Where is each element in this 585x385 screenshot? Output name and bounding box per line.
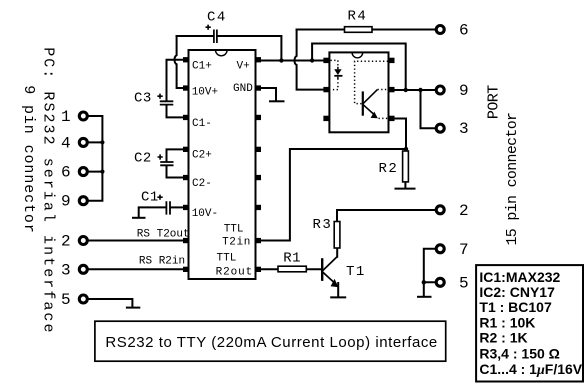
- resistor R4 body: [345, 27, 373, 33]
- ground at T1 emitter: [331, 296, 345, 298]
- terminal PC-9: [79, 197, 87, 205]
- plus signs: [157, 25, 210, 200]
- wire GND pin to ground: [261, 88, 277, 101]
- node R2/T2in: [404, 147, 408, 151]
- svg-text:R3,4 : 150 Ω: R3,4 : 150 Ω: [479, 346, 560, 362]
- wire port pin7 to pin5 to ground: [424, 249, 435, 297]
- capacitor C2 plates: [160, 162, 173, 165]
- svg-text:PC: RS232 serial interface: PC: RS232 serial interface: [40, 47, 57, 334]
- wire PC pin5 to ground: [89, 299, 133, 307]
- svg-text:C4: C4: [207, 10, 227, 26]
- wire top rail C4 left: [177, 35, 214, 37]
- svg-text:10V+: 10V+: [192, 87, 218, 99]
- IC2 left pins: [323, 58, 329, 121]
- svg-text:RS T2out: RS T2out: [137, 229, 190, 241]
- node bus-6: [100, 170, 104, 174]
- svg-text:IC2: CNY17: IC2: CNY17: [479, 284, 555, 300]
- title box: [95, 321, 446, 361]
- svg-text:R2: R2: [379, 161, 399, 177]
- wire R4 right to port pin6: [372, 29, 434, 31]
- node C4/V+: [279, 58, 283, 62]
- wire R4 left to opto pin2 with hop: [295, 30, 324, 90]
- svg-text:C1...4 : 1μF/16V: C1...4 : 1μF/16V: [479, 361, 582, 378]
- wire top rail to 10V+ pin with hop: [175, 36, 184, 88]
- wire T1 collector to R3: [336, 248, 338, 257]
- svg-text:15 pin connector: 15 pin connector: [504, 113, 521, 246]
- wire PC pins 1-4-6-9 bus: [89, 116, 103, 201]
- polarity + C1: [157, 195, 162, 200]
- terminal PC-1: [79, 112, 87, 120]
- wire C4 right to V+ rail: [217, 36, 281, 61]
- wire TTL R2out pin to R1: [261, 268, 279, 270]
- resistor R3 body: [334, 222, 340, 249]
- svg-text:T1: T1: [346, 264, 366, 280]
- terminal PC-4: [79, 138, 87, 146]
- wire R3 top to port pin2: [337, 210, 434, 222]
- op-amp U1: IC1 MAX232 box: [189, 50, 256, 279]
- wire opto pin4 down to R2: [395, 119, 407, 152]
- IC2 right pins: [389, 58, 395, 121]
- svg-text:RS R2in: RS R2in: [139, 256, 185, 268]
- terminal PC-6: [79, 168, 87, 176]
- resistor R1 body: [278, 266, 306, 272]
- wire R2 node to TTL T2in pin: [261, 149, 407, 241]
- IC2 CNY17 optocoupler box: [329, 52, 388, 132]
- svg-text:1: 1: [61, 108, 71, 126]
- node port9/port3: [418, 88, 422, 92]
- svg-text:C2: C2: [134, 151, 152, 167]
- terminal PORT-6: [436, 26, 444, 34]
- svg-text:3: 3: [61, 261, 71, 279]
- wire R2 bottom to ground: [404, 182, 406, 188]
- parts list box: [476, 265, 583, 381]
- PC connector terminals: [79, 112, 87, 303]
- wire branch to port pin3: [421, 90, 435, 128]
- phototransistor inside IC2: [355, 61, 388, 118]
- svg-text:2: 2: [61, 233, 71, 251]
- wire V+ pin to optocoupler pin1: [261, 60, 324, 62]
- LED inside IC2: [331, 60, 343, 89]
- node opto5/top: [404, 88, 408, 92]
- svg-text:RS232 to TTY (220mA Current Lo: RS232 to TTY (220mA Current Loop) interf…: [105, 334, 437, 351]
- svg-text:9 pin connector: 9 pin connector: [20, 85, 37, 234]
- terminal PORT-5: [436, 278, 444, 286]
- svg-text:5: 5: [459, 274, 469, 292]
- resistor R2 body: [403, 151, 409, 182]
- ground at C1: [133, 217, 145, 219]
- transistor Q1: T1 BC107: [322, 257, 338, 288]
- ground at port pins 7-5: [418, 296, 431, 298]
- svg-text:R2out: R2out: [216, 267, 254, 279]
- IC1 right pins: [256, 57, 262, 272]
- svg-text:T2in: T2in: [222, 237, 251, 249]
- polarity + C4: [206, 25, 211, 30]
- node port5/gnd: [422, 280, 426, 284]
- terminal PC-5: [79, 295, 87, 303]
- svg-text:6: 6: [459, 22, 469, 40]
- terminal PORT-9: [436, 86, 444, 94]
- svg-text:V+: V+: [237, 60, 250, 72]
- capacitor C1 plates: [166, 201, 170, 214]
- svg-text:T1 : BC107: T1 : BC107: [479, 299, 552, 315]
- svg-text:C3: C3: [134, 91, 152, 107]
- polarity + C3: [157, 94, 162, 99]
- ground at GND pin: [270, 100, 284, 102]
- svg-text:TTL: TTL: [217, 253, 237, 265]
- svg-text:R2 : 1K: R2 : 1K: [479, 330, 527, 346]
- wire PC pin3 to RS R2in: [89, 268, 183, 270]
- capacitor C4 plates: [214, 30, 217, 44]
- svg-text:9: 9: [459, 82, 469, 100]
- svg-text:PORT: PORT: [485, 85, 502, 119]
- wire T1 emitter to ground: [337, 283, 339, 297]
- IC1 left pins: [183, 57, 189, 272]
- svg-text:C1+: C1+: [192, 60, 212, 72]
- ground at R2: [396, 188, 415, 190]
- capacitor C3 plates: [160, 101, 174, 104]
- wire V+ node up-over to right: [312, 44, 406, 91]
- svg-text:4: 4: [61, 134, 71, 152]
- svg-text:R4: R4: [348, 9, 368, 25]
- polarity + C2: [158, 154, 163, 159]
- wire C1+ pin to C3 top: [167, 60, 184, 101]
- terminal PC-2: [79, 237, 87, 245]
- terminal PC-3: [79, 265, 87, 273]
- svg-text:C2-: C2-: [192, 178, 212, 190]
- svg-text:2: 2: [459, 202, 469, 220]
- wire R4 left segment: [297, 29, 345, 31]
- svg-text:TTL: TTL: [224, 224, 244, 236]
- node bus-4: [100, 140, 104, 144]
- svg-text:C1: C1: [141, 190, 159, 206]
- svg-text:R1: R1: [283, 251, 301, 267]
- wire opto pin5 to port pin9: [395, 89, 435, 91]
- svg-text:R3: R3: [313, 217, 333, 233]
- svg-text:C1-: C1-: [192, 118, 212, 130]
- wire C2+ pin to C2 top: [167, 149, 184, 161]
- svg-text:3: 3: [459, 120, 469, 138]
- wire C2 bottom to C2- pin: [167, 166, 184, 178]
- terminal PORT-3: [436, 124, 444, 132]
- svg-text:IC1:MAX232: IC1:MAX232: [479, 269, 560, 285]
- wire R1 to T1 base: [306, 268, 322, 270]
- svg-text:5: 5: [61, 291, 71, 309]
- svg-text:R1 : 10K: R1 : 10K: [479, 314, 535, 330]
- wire PC pin2 to RS T2out: [89, 240, 183, 242]
- svg-text:C2+: C2+: [192, 150, 212, 162]
- PORT connector terminals: [436, 26, 444, 287]
- svg-text:7: 7: [459, 241, 469, 259]
- terminal PORT-2: [436, 206, 444, 214]
- svg-text:9: 9: [61, 193, 71, 211]
- wire C1 right plate to 10V- pin: [171, 206, 183, 208]
- svg-text:GND: GND: [233, 83, 253, 95]
- svg-text:10V-: 10V-: [192, 208, 218, 220]
- ground at PC pin5: [127, 307, 139, 309]
- node V+/port: [310, 58, 314, 62]
- terminal PORT-7: [436, 245, 444, 253]
- svg-text:6: 6: [61, 164, 71, 182]
- wire C3 bottom to C1- pin: [167, 105, 184, 117]
- wire C1 left plate to ground: [139, 207, 166, 217]
